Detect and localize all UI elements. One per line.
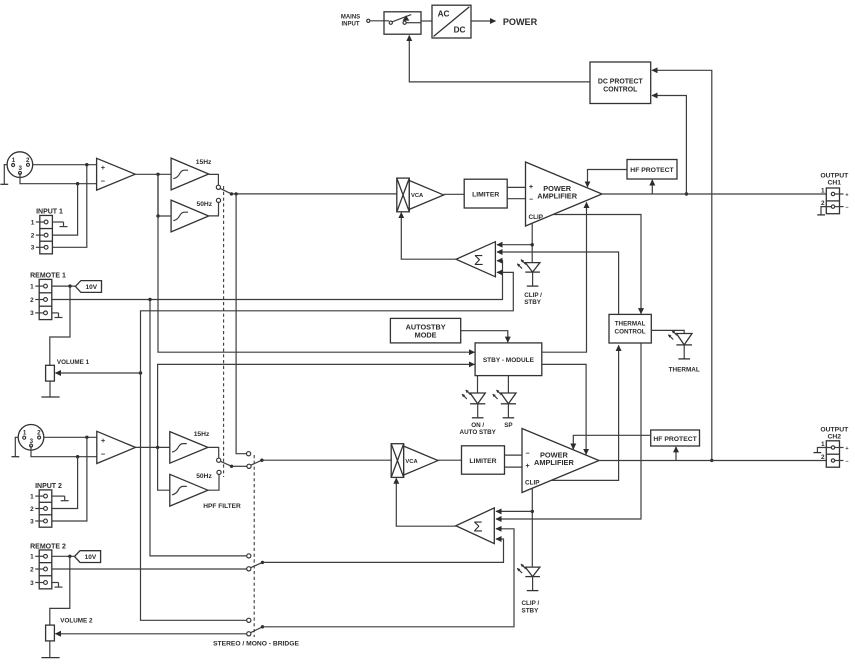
svg-text:DC: DC [454,26,466,35]
wire autostby to stby module (arrow) [461,331,508,343]
terminal block REMOTE 1 [30,272,66,319]
svg-text:2: 2 [31,232,35,239]
svg-text:1: 1 [30,283,34,290]
wire XLR1 hot (pin2) to opamp + [33,163,97,166]
wire mains to relay [370,20,389,22]
svg-text:AC: AC [438,10,450,19]
svg-text:−: − [529,197,533,204]
node MAINS INPUT [341,15,370,28]
svg-text:REMOTE 1: REMOTE 1 [30,272,66,279]
wire thermal to sum1 input2 [497,252,619,314]
svg-text:−: − [101,450,106,459]
wire remote2 pin2 to mono switch 2 throw [52,568,247,570]
wire 50Hz CH1 input branch [156,174,171,217]
svg-text:−: − [845,459,848,465]
svg-text:+: + [845,446,848,452]
wire CH1 signal branch to mono switch [236,194,246,454]
STBY - MODULE box [475,343,542,376]
svg-text:1: 1 [12,157,16,164]
svg-text:STEREO / MONO - BRIDGE: STEREO / MONO - BRIDGE [213,640,299,647]
wire INPUT2 pin1 to chassis ground [52,496,69,501]
wire VCA2 to limiter2 [438,459,462,461]
filter 15Hz CH1 [171,158,212,190]
wire AC/DC to POWER arrow [471,20,496,22]
wire 50Hz CH2 input branch [158,447,170,490]
wire mono2 pole to sum2 input4 [263,539,504,562]
svg-text:−: − [526,451,530,458]
filter 50Hz CH1 [171,200,213,232]
wire mono3 pole to sum2 input3 [263,529,515,627]
op-amp U1 input buffer CH1 [97,158,136,190]
svg-text:THERMAL: THERMAL [615,320,646,327]
AUTOSTBY MODE box [390,318,460,343]
op-amp U3 input buffer CH2 [97,431,136,463]
ground (volume1) [41,381,59,397]
svg-text:Σ: Σ [473,518,482,535]
svg-text:CLIP /: CLIP / [522,600,540,607]
wire opamp1 output node [135,173,171,176]
switch S2 HPF select CH2 [217,458,234,474]
wire CH2 signal to stby module input2 [158,364,475,447]
label STEREO / MONO - BRIDGE [213,640,299,647]
svg-text:POWER: POWER [503,17,538,27]
svg-text:1: 1 [30,493,34,500]
svg-text:3: 3 [30,438,34,445]
wire output CH1 to HF protect1 (arrow up) [651,180,653,194]
svg-text:VCA: VCA [411,193,424,199]
ground (volume2) [41,641,59,658]
connector OUTPUT CH1 [820,172,849,213]
potentiometer VOLUME 2 [46,617,247,640]
svg-text:INPUT 1: INPUT 1 [36,208,63,215]
svg-text:1: 1 [30,554,34,561]
bus remote1 down to mono switch 2 [150,300,247,556]
svg-text:3: 3 [31,245,35,252]
svg-text:AUTO STBY: AUTO STBY [460,429,497,436]
switch S1 HPF select CH1 [216,185,233,202]
wire XLR2 cold to opamp2 [31,446,97,459]
flag 10V (remote1) [52,281,102,293]
ground (XLR2 shield) [12,437,20,456]
XLR connector CH1 [7,152,33,178]
relay K1 mains switch [384,12,421,34]
svg-text:3: 3 [30,518,34,525]
svg-text:VOLUME 1: VOLUME 1 [57,359,90,366]
wire thermal control to sum2 input2 [496,343,641,519]
wire CH2 output sense to DC protect input 1 [652,70,714,462]
svg-text:15Hz: 15Hz [196,159,212,166]
wire remote1 10V node to volume1 [50,286,70,365]
LED THERMAL [651,330,700,373]
wire sum2 output to VCA2 cv (arrow) [396,478,456,526]
terminal block INPUT 1 [31,208,63,254]
flag 10V (remote2) [52,551,101,563]
ground (output CH1 pin2) [817,207,831,215]
svg-text:CH1: CH1 [827,179,841,186]
svg-text:CONTROL: CONTROL [603,87,637,94]
wire INPUT2 pin3 to hot node [52,437,87,521]
svg-text:1: 1 [31,219,35,226]
AC/DC converter [432,5,471,38]
svg-text:2: 2 [26,157,30,164]
wire opamp2 output node [136,446,170,449]
sum amp S2 CH2 [456,508,495,544]
wire volume1 bus to sum1 [141,272,514,373]
svg-text:1: 1 [821,187,825,194]
wire main signal CH1 to VCA1 [232,192,397,195]
LED SP [493,376,516,429]
svg-text:+: + [529,184,533,191]
wire INPUT1 pin2 to cold node [52,184,77,235]
svg-text:50Hz: 50Hz [196,473,212,480]
wire 15Hz out to switch throw [209,174,219,185]
svg-text:50Hz: 50Hz [196,201,212,208]
svg-text:HF PROTECT: HF PROTECT [630,167,674,174]
wire PA1 clip output [531,223,534,262]
wire output CH1 line [602,193,826,195]
svg-text:HPF FILTER: HPF FILTER [203,503,241,510]
wire PA2 clip output [531,488,534,567]
terminal block REMOTE 2 [30,543,66,588]
wire INPUT1 pin1 to chassis ground [52,222,67,227]
dashed gang line HPF switches [223,186,225,477]
label POWER [503,17,538,27]
connector OUTPUT CH2 [820,426,849,467]
wire remote2 10V node to volume2 [50,556,70,625]
bus volume1 down to mono switch 3 [141,373,247,620]
svg-text:2: 2 [821,454,825,461]
terminal block INPUT 2 [30,483,62,527]
svg-text:ON /: ON / [471,422,484,429]
svg-text:CLIP: CLIP [525,479,540,486]
wire remote1 pin3 to chassis ground [52,313,63,318]
wire remote2 pin3 to chassis ground [52,583,63,588]
wire XLR2 hot to opamp2 [44,436,97,439]
power amplifier PA2 [522,429,599,493]
svg-text:+: + [101,163,106,172]
LED ON/AUTO STBY [460,376,497,437]
svg-text:−: − [845,205,848,211]
svg-text:THERMAL: THERMAL [669,366,700,373]
svg-text:SP: SP [504,422,512,429]
LED CLIP/STBY CH2 [517,564,540,614]
svg-text:CLIP: CLIP [529,214,544,221]
svg-text:AMPLIFIER: AMPLIFIER [537,192,577,201]
svg-text:2: 2 [30,566,34,573]
wire clip to sum1 input1 [497,244,532,246]
svg-text:15Hz: 15Hz [194,431,210,438]
ground (XLR1 shield) [0,165,8,185]
svg-text:CLIP /: CLIP / [524,292,542,299]
XLR connector CH2 [18,425,44,451]
svg-text:STBY - MODULE: STBY - MODULE [483,357,535,364]
svg-text:VCA: VCA [405,459,418,465]
potentiometer VOLUME 1 [46,359,143,381]
wires limiter2 to PA2 [505,455,523,467]
VCA U2 CH1 [397,178,444,212]
svg-text:STBY: STBY [522,607,540,614]
wire PA2 thermal sense to thermal control (arrow up) [551,345,619,480]
dashed gang line stereo/mono [253,455,255,637]
THERMAL CONTROL box [609,314,651,343]
svg-text:2: 2 [37,430,41,437]
HF PROTECT box CH1 [627,160,677,180]
svg-text:STBY: STBY [524,299,542,306]
wire HF protect1 to PA1 top (arrow) [588,170,628,187]
VCA U4 CH2 [391,444,438,478]
svg-text:OUTPUT: OUTPUT [820,426,849,433]
wire XLR1 cold (pin3) to opamp - [20,173,97,185]
svg-text:+: + [526,463,530,470]
DC protect control box [590,62,651,104]
sum amp S1 CH1 [456,242,495,277]
svg-text:LIMITER: LIMITER [472,191,499,198]
ground (output CH2 pin1) [814,448,832,453]
svg-text:HF PROTECT: HF PROTECT [653,436,697,443]
svg-text:+: + [101,436,106,445]
wire sum1 output to VCA1 cv (arrow) [401,213,456,260]
svg-text:2: 2 [30,506,34,513]
wire output CH2 to HF protect2 (arrow up) [675,447,677,461]
LIMITER box CH1 [464,179,507,208]
svg-text:2: 2 [30,297,34,304]
wire 15Hz2 out to switch throw [208,447,219,458]
wire HF protect2 to PA2 top (arrow) [573,435,650,449]
wire VCA1 to limiter1 [444,193,465,195]
svg-text:OUTPUT: OUTPUT [820,172,849,179]
power amplifier PA1 [526,162,603,226]
svg-text:VOLUME 2: VOLUME 2 [60,617,93,624]
wire stby module to PA2 (arrow down) [542,364,586,454]
wire output CH2 line [599,460,826,462]
switch mono/bridge section 2 [247,554,264,571]
svg-text:3: 3 [30,580,34,587]
svg-text:INPUT: INPUT [342,22,360,28]
wire mono pole to VCA2 [262,459,391,461]
wire DC protect to relay (arrow up) [409,36,590,82]
svg-text:1: 1 [821,441,825,448]
label HPF FILTER [203,503,241,510]
svg-text:MAINS: MAINS [341,15,360,21]
svg-text:CONTROL: CONTROL [615,328,646,335]
wires limiter1 to PA1 [507,187,525,198]
svg-text:INPUT 2: INPUT 2 [35,483,62,490]
svg-text:Σ: Σ [474,252,483,269]
svg-text:DC PROTECT: DC PROTECT [598,79,644,86]
wire INPUT1 pin3 to hot node [52,165,86,248]
LIMITER box CH2 [462,446,505,474]
switch mono/bridge section 3 [247,618,264,636]
wire 50Hz out to switch throw [209,202,219,216]
wire CH1 output sense to DC protect input 2 [652,96,688,196]
switch mono/bridge section 1 [247,452,264,469]
wire clip2 to sum2 input1 [496,510,532,512]
svg-text:CH2: CH2 [827,433,841,440]
svg-text:AMPLIFIER: AMPLIFIER [534,458,574,467]
wire HPF2 pole to mono switch throw [232,465,247,467]
wire PA1 thermal sense to thermal control (arrow down) [553,215,641,314]
svg-text:MODE: MODE [415,330,437,339]
wire INPUT2 pin2 to cold node [52,457,78,509]
svg-text:10V: 10V [85,554,97,561]
wire stby module to PA1 (arrow up) [542,202,587,352]
wire relay to AC/DC [421,20,432,22]
filter 50Hz CH2 [170,473,213,506]
filter 15Hz CH2 [170,431,210,463]
svg-text:10V: 10V [86,284,98,291]
svg-text:1: 1 [23,430,27,437]
svg-text:3: 3 [18,165,22,172]
svg-text:LIMITER: LIMITER [469,458,496,465]
LED CLIP/STBY CH1 [517,260,542,307]
bus CH1 signal to stby module [158,174,474,352]
wire remote1 pin2 bus to sum1 [52,261,503,301]
svg-text:+: + [845,193,848,199]
wire 50Hz2 out to switch throw [208,475,219,491]
svg-text:3: 3 [30,310,34,317]
svg-text:−: − [101,177,106,186]
HF PROTECT box CH2 [651,430,700,446]
